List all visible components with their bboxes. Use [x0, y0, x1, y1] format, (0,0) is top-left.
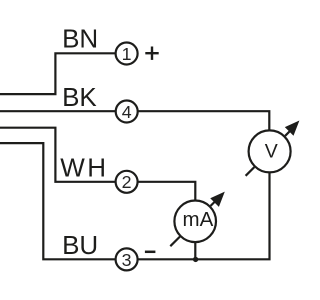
ammeter mA — [170, 193, 224, 247]
wire BU (left stub to terminal 3) — [0, 143, 116, 259]
svg-text:1: 1 — [122, 44, 132, 64]
voltmeter V — [246, 122, 299, 176]
label WH — [60, 152, 108, 182]
svg-text:WH: WH — [60, 152, 108, 182]
svg-text:V: V — [265, 141, 278, 163]
wire BN (left stub to terminal 1) — [0, 53, 116, 94]
terminal 1 — [116, 43, 138, 65]
svg-text:2: 2 — [122, 172, 132, 192]
label BN — [62, 24, 98, 54]
svg-text:mA: mA — [183, 208, 214, 231]
plus label at terminal 1 — [145, 47, 158, 60]
minus label at terminal 3 — [145, 251, 156, 254]
wire from terminal 3 to voltmeter bottom — [138, 173, 270, 260]
wire BK (left stub to terminal 4) — [0, 110, 116, 112]
svg-text:BN: BN — [62, 24, 98, 54]
svg-text:BK: BK — [62, 82, 97, 112]
svg-text:4: 4 — [122, 102, 132, 122]
svg-text:BU: BU — [62, 230, 98, 260]
wire from terminal 4 to voltmeter top — [138, 111, 270, 130]
wire from terminal 2 to ammeter top — [138, 182, 196, 201]
label BU — [62, 230, 98, 260]
label BK — [62, 82, 97, 112]
wire from ammeter bottom to junction — [194, 242, 196, 259]
wire WH (left stub to terminal 2) — [0, 128, 116, 182]
terminal 3 — [116, 248, 138, 270]
terminal 2 — [116, 171, 138, 193]
svg-text:3: 3 — [122, 250, 132, 270]
junction dot — [193, 257, 198, 262]
terminal 4 — [116, 101, 138, 123]
